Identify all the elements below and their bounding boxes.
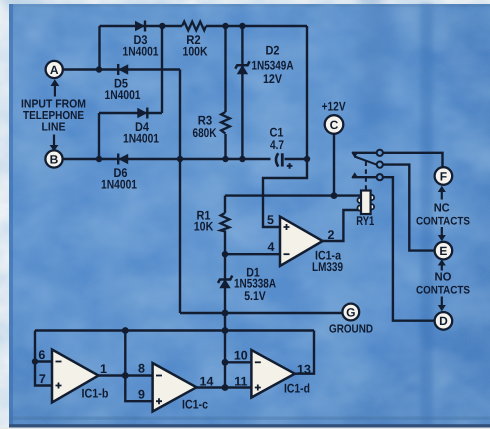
arrow NO to D [438, 297, 446, 312]
svg-text:IC1-b: IC1-b [82, 387, 109, 401]
bottom darker band [9, 417, 490, 420]
svg-text:IC1-c: IC1-c [182, 398, 208, 412]
wire: A-row right drop x=180 down to ground rail [179, 70, 181, 314]
node ground rail / D1 [222, 310, 229, 317]
svg-text:1N4001: 1N4001 [123, 45, 159, 59]
wire: drop from top bus to D4 row x=161 [161, 26, 163, 113]
wire: feedback rail y=330.5 [35, 329, 314, 331]
svg-text:D2: D2 [266, 44, 280, 58]
svg-text:IC1-d: IC1-d [284, 382, 310, 396]
node +12V feed [331, 192, 338, 199]
wire: relay actuation dashed [365, 162, 367, 191]
resistor R3 [221, 112, 230, 134]
node IC1-b output [122, 372, 129, 379]
resistor R2 [182, 22, 206, 31]
svg-text:+12V: +12V [322, 100, 346, 114]
node top-bus / D2 [239, 23, 245, 29]
svg-text:2: 2 [328, 228, 335, 242]
op-amp IC1-b [52, 350, 99, 403]
svg-text:9: 9 [138, 388, 145, 402]
terminal F [435, 167, 453, 185]
wire: D2 branch vertical x=242.4 [241, 26, 243, 159]
svg-text:4.7: 4.7 [270, 138, 284, 152]
wire: B row [63, 158, 308, 160]
arrow to B [50, 135, 59, 152]
relay NO arrow [351, 172, 358, 178]
svg-text:B: B [50, 152, 59, 166]
terminal E [435, 242, 453, 260]
wire: IC1-d output back to rail [295, 331, 314, 374]
wire: IC1-a output to relay coil [323, 210, 361, 241]
wire: pin 6 stub [35, 360, 52, 362]
diode D3 [136, 21, 146, 32]
node feedback rail / IC1-b out drop [122, 327, 129, 334]
wire: relay armature [355, 157, 377, 165]
diode D4 [138, 108, 148, 119]
relay contact points [377, 150, 383, 181]
wire: drop from D4 row to B row x=99 [98, 113, 100, 159]
diode D6 [118, 154, 128, 165]
wire: pin4 row [225, 253, 280, 255]
node C1 right plate [304, 156, 310, 162]
node feedback rail / D1 branch [222, 327, 229, 334]
wire: rail left drop to pins 6,7 [35, 331, 52, 386]
svg-text:G: G [346, 305, 355, 319]
terminal C [325, 115, 344, 134]
relay RY1 coil [358, 191, 375, 215]
resistor R1 [221, 213, 230, 231]
svg-text:12V: 12V [263, 72, 282, 86]
svg-text:100K: 100K [183, 45, 208, 59]
terminal B [45, 150, 62, 167]
capacitor C1 [276, 153, 282, 166]
left dark edge [9, 4, 13, 428]
terminal G [342, 304, 359, 321]
svg-text:F: F [440, 169, 447, 183]
op-amp IC1-c [153, 363, 197, 412]
wire: IC1-c output row to IC1-d pin 11 [197, 386, 252, 388]
op-amp U1 IC1-a [280, 217, 323, 266]
arrow NO to E [438, 259, 446, 270]
svg-text:NC: NC [434, 202, 451, 215]
svg-text:11: 11 [234, 375, 247, 389]
wire: R3 branch vertical x=225.5 [224, 26, 226, 159]
node B-row / D2 bottom [239, 156, 245, 162]
svg-text:1N4001: 1N4001 [123, 132, 159, 146]
svg-text:5.1V: 5.1V [244, 289, 266, 303]
zener D2 [235, 61, 249, 74]
wire: A row [63, 68, 180, 70]
wire: left drop from top bus to A row [98, 26, 100, 70]
svg-text:13: 13 [297, 362, 311, 376]
svg-text:14: 14 [200, 375, 214, 389]
svg-text:6: 6 [38, 348, 45, 362]
svg-text:10K: 10K [194, 219, 214, 233]
wire: drop x=125.3 rail to pin9 [125, 331, 152, 402]
darker top-right streak [359, 0, 389, 135]
wire: top bus y=26 [100, 25, 308, 27]
svg-text:4: 4 [268, 240, 275, 254]
svg-text:1N4001: 1N4001 [101, 178, 137, 192]
node B-row left junction [96, 156, 102, 162]
node top-bus / R3 [222, 23, 228, 29]
node pin 10 tie [222, 359, 229, 366]
wire: C terminal drop [333, 134, 335, 196]
node IC1-c output / pin 11 [222, 384, 229, 391]
svg-text:CONTACTS: CONTACTS [416, 215, 470, 227]
node pin 6 tie [32, 358, 38, 364]
svg-text:1N4001: 1N4001 [105, 88, 141, 102]
arrow NC to E [438, 227, 446, 241]
svg-text:A: A [50, 63, 59, 77]
wire: relay NC contact to F [352, 153, 443, 167]
svg-text:5: 5 [267, 213, 274, 227]
svg-text:7: 7 [39, 372, 46, 386]
svg-text:RY1: RY1 [356, 214, 374, 228]
diode D5 [118, 64, 128, 75]
relay NC arrow [351, 152, 358, 158]
terminal A [46, 61, 63, 78]
svg-text:10: 10 [234, 349, 248, 363]
svg-text:680K: 680K [193, 126, 217, 140]
svg-text:8: 8 [138, 362, 145, 376]
wire: right drop from top bus x=307 [306, 26, 308, 159]
svg-text:1: 1 [100, 362, 107, 376]
node top-bus / D4 drop [159, 23, 165, 29]
bottom dark rule [9, 424, 490, 427]
node R1 bottom / pin 4 [222, 251, 228, 257]
svg-text:GROUND: GROUND [329, 323, 373, 336]
arrow NC to F [438, 186, 446, 200]
node B-row / ground drop [177, 156, 183, 162]
svg-text:1N5349A: 1N5349A [252, 59, 294, 73]
node B-row / R3 bottom [222, 156, 228, 162]
svg-text:E: E [439, 244, 447, 258]
svg-text:LINE: LINE [42, 121, 66, 134]
svg-text:D: D [439, 314, 448, 328]
svg-text:CONTACTS: CONTACTS [416, 285, 470, 297]
terminal D [435, 312, 453, 330]
wire: relay common contact to E [383, 165, 435, 251]
arrow to A [51, 79, 60, 96]
node A-row junction [96, 66, 102, 72]
wire: +12V feed horizontal to relay coil [225, 194, 361, 196]
wire: ground rail to G [180, 312, 342, 314]
wire: relay NO contact to D [352, 177, 434, 321]
wire: D4 row [99, 112, 162, 114]
op-amp IC1-d [251, 350, 294, 398]
svg-text:LM339: LM339 [312, 260, 343, 274]
wire: node to pin5 path [263, 159, 307, 227]
wire: pin 10 stub [225, 361, 251, 363]
wire: IC1-b output row to IC1-c pin 8 [99, 374, 153, 376]
zener D1 [218, 276, 232, 288]
svg-text:C: C [330, 118, 339, 132]
wire: R1/D1 vertical chain x=225 [224, 196, 226, 388]
svg-text:NO: NO [435, 271, 452, 284]
